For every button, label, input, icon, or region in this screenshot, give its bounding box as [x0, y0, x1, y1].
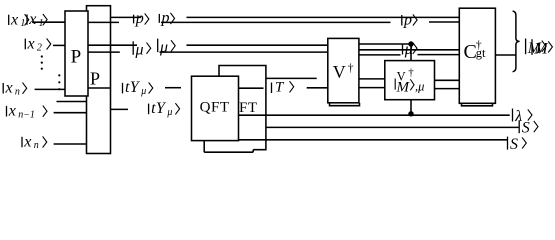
wire input row6 (xn) [54, 143, 87, 145]
wire T wire A seg1 [239, 87, 264, 89]
ket |mu> (A) mid [157, 39, 159, 53]
ket |xn> (B) input [21, 137, 23, 148]
gate C-dagger-gt (B) bottom fringe [462, 103, 493, 106]
wire S wire 2 [239, 139, 507, 141]
gate V-dagger (A) [328, 38, 359, 102]
svg-text:x: x [27, 36, 35, 53]
wire input row1 (x1) [32, 21, 65, 23]
svg-text:V: V [333, 62, 346, 82]
svg-text:1: 1 [39, 18, 44, 29]
ket |x2> (B) input [24, 39, 26, 50]
gate P (B, tall box) [87, 6, 111, 154]
wire M wire B (Y to C) [435, 88, 460, 90]
svg-text:x: x [10, 11, 18, 28]
svg-text:FT: FT [239, 100, 258, 116]
wire mu wire A seg2 [160, 51, 328, 53]
svg-text:S: S [510, 136, 518, 153]
ket |M> (2) output [531, 39, 533, 55]
svg-text:x: x [8, 103, 16, 120]
ket |M> (1) output [525, 39, 527, 55]
ket |mu> (B) mid [132, 41, 134, 55]
wire S wire 1 [266, 126, 519, 128]
wire control vertical bottom [410, 100, 412, 114]
wire T wire B seg1 [266, 77, 317, 79]
svg-text:n: n [34, 140, 39, 151]
output brace [513, 11, 520, 72]
gate C-dagger-gt (A) [459, 8, 495, 103]
wire input row2 (x2) [53, 44, 65, 46]
wire p wire A seg1 [89, 21, 119, 23]
svg-text:P: P [71, 46, 82, 67]
vertical dots 2 [58, 74, 60, 76]
svg-text:p: p [161, 10, 170, 27]
ket |lambda> output [512, 109, 514, 122]
ket |p> right [401, 15, 403, 26]
ket |p> (A) mid [158, 14, 160, 23]
gate QFT (B) partial outline [219, 66, 266, 150]
svg-text:μ: μ [135, 41, 144, 58]
ket |tY mu> (A) [122, 83, 124, 94]
svg-text:†: † [348, 61, 354, 75]
wire mu wire B seg2 [187, 44, 328, 46]
wire mu wire B seg1 [89, 44, 138, 46]
wire T wire B seg2 [359, 78, 385, 80]
wire QFT link horizontal [204, 151, 253, 153]
svg-text:2: 2 [37, 42, 42, 53]
wire mu out wire A [359, 49, 459, 51]
wire control vertical top [410, 44, 412, 61]
svg-text:M: M [533, 41, 549, 58]
svg-text:†: † [408, 67, 414, 79]
ket |x1> (A) input [8, 15, 10, 25]
ket |p> (B) mid [133, 15, 135, 24]
wire p wire A seg3 [429, 21, 459, 23]
svg-text:μ: μ [140, 86, 146, 97]
wire p wire B seg1 [111, 16, 142, 18]
ket |S> output 2 [507, 137, 509, 150]
wire p wire B seg2 [187, 16, 460, 18]
svg-text:μ: μ [166, 107, 172, 118]
wire mu out wire B seg2 [418, 54, 460, 56]
svg-text:M: M [396, 80, 411, 96]
svg-text:S: S [522, 120, 530, 137]
svg-text:p: p [403, 11, 412, 28]
ket |S> output 1 [518, 120, 520, 133]
wire mu out wire B seg1 [359, 54, 401, 56]
gate QFT (A) [192, 76, 239, 140]
wire control wire to dot [359, 43, 411, 45]
vertical dots 1 [41, 55, 43, 57]
gate P (A) [65, 11, 88, 96]
svg-text:1: 1 [20, 18, 25, 29]
ket |mu> right [402, 44, 404, 55]
wire QFT-B bottom link vertical [252, 150, 254, 153]
svg-text:x: x [28, 11, 36, 28]
svg-text:p: p [135, 10, 144, 27]
svg-text:gt: gt [476, 46, 486, 60]
wire T wire A seg2 [307, 87, 328, 89]
wire p wire A seg2 [161, 21, 391, 23]
wire QFT-A bottom link vertical [203, 141, 205, 153]
wire tY wire A seg1 [88, 87, 111, 89]
wire input row3 (xn) [35, 88, 65, 90]
svg-text:P: P [90, 68, 100, 88]
ket |x n-1> (B) input [6, 106, 8, 117]
ket |xn> (A) input [2, 83, 4, 94]
wire input row4 [57, 101, 87, 103]
ket |tY mu> (B) [148, 104, 150, 115]
svg-text:QFT: QFT [200, 100, 230, 116]
wire T wire A seg3 (V to Y) [359, 87, 385, 89]
wire input row5 (xn-1) [54, 112, 87, 114]
wire tY wire A seg2 [165, 87, 181, 89]
svg-text:μ: μ [159, 39, 168, 56]
svg-text:x: x [5, 80, 13, 97]
wire M output wire [495, 54, 516, 56]
wire M wire A (Y to C) [435, 79, 460, 81]
svg-text:n: n [15, 86, 20, 97]
ket |T> (A) [271, 83, 273, 94]
wire lambda wire [239, 114, 510, 116]
svg-text:,μ: ,μ [415, 80, 424, 94]
wire mu wire A seg1 [89, 51, 120, 53]
wire tY wire B seg1 [111, 108, 129, 110]
ket |x1> (B) input [26, 14, 28, 24]
svg-text:x: x [23, 134, 31, 151]
control dot bottom [408, 111, 413, 116]
gate V-dagger (B) bottom fringe [330, 103, 360, 106]
control dot top [408, 41, 413, 46]
gate V-dagger-M-mu (Y box) [385, 61, 435, 100]
svg-text:n−1: n−1 [18, 109, 35, 120]
